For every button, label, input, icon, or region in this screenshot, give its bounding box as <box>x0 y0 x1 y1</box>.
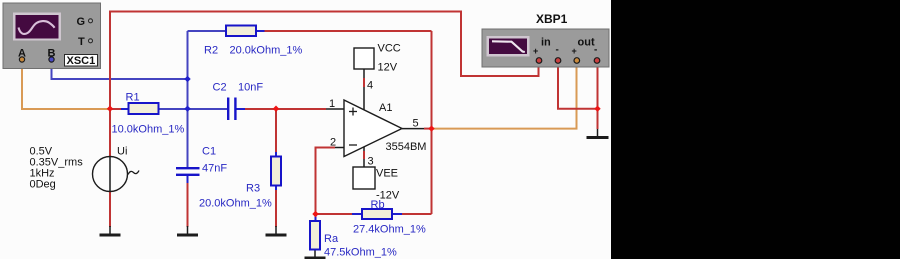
source Ui <box>93 157 140 192</box>
svg-text:2: 2 <box>330 137 336 149</box>
svg-text:Ui: Ui <box>117 146 127 158</box>
svg-text:T: T <box>78 36 85 48</box>
wire: black op-amp output lead <box>402 128 424 130</box>
wire: blue R1 right to C2 left plate <box>158 108 228 110</box>
wire: black VCC lead <box>363 69 365 110</box>
svg-text:XBP1: XBP1 <box>536 12 568 26</box>
resistor Rb <box>362 209 392 219</box>
svg-text:VEE: VEE <box>376 168 398 180</box>
ground (Ra) <box>305 257 326 259</box>
wire: black pin1 lead <box>326 108 344 110</box>
svg-text:3: 3 <box>368 156 374 168</box>
node: red junction feedback/Ra <box>312 211 318 217</box>
wire: blue R2 branch vertical <box>187 31 189 168</box>
svg-text:+: + <box>533 46 538 56</box>
wire: orange output node to XBP1 out+ <box>432 63 577 129</box>
wire: red C1 to ground <box>187 183 189 227</box>
svg-text:0Deg: 0Deg <box>30 179 56 191</box>
wire: red XBP1 out- down to ground <box>597 63 599 129</box>
svg-text:-: - <box>556 45 559 56</box>
wire: red VCC wire segment <box>363 78 365 87</box>
wire: red source bottom to ground <box>109 191 111 227</box>
svg-text:10nF: 10nF <box>238 82 263 94</box>
resistor R1 <box>129 103 159 114</box>
wire: red Rb to output vertical <box>402 213 432 215</box>
svg-text:47.5kOhm_1%: 47.5kOhm_1% <box>324 247 397 259</box>
resistor R2 <box>226 26 256 37</box>
VEE supply box <box>353 167 375 189</box>
ground (Ui) <box>100 234 121 237</box>
wire: red pin2 to feedback node <box>316 148 336 215</box>
resistor R3 <box>271 157 281 186</box>
svg-text:Ra: Ra <box>324 233 339 245</box>
ground (XBP1) <box>587 136 609 139</box>
wire: blue R1 left lead <box>121 108 129 110</box>
wire: blue C2 right lead <box>237 108 246 110</box>
svg-text:4: 4 <box>367 80 373 92</box>
svg-text:A: A <box>18 48 26 60</box>
svg-text:3554BM: 3554BM <box>386 141 427 153</box>
ground (C1) <box>177 234 198 237</box>
wire: black ground stub C1 <box>187 226 189 234</box>
wire: red VEE wire segment <box>363 151 365 159</box>
svg-text:in: in <box>541 37 551 49</box>
svg-text:out: out <box>578 37 595 49</box>
svg-text:1: 1 <box>329 98 335 110</box>
wire: blue R2 right lead <box>256 30 265 32</box>
wire: red feedback node to Rb <box>316 213 353 215</box>
svg-text:C1: C1 <box>202 146 216 158</box>
wire: blue R2 horizontal left lead <box>188 30 227 32</box>
wire: orange from scope A down and right to input node <box>22 62 110 109</box>
op-amp A1 <box>344 100 402 157</box>
svg-text:-12V: -12V <box>376 190 400 202</box>
wire: black Ra bottom to ground <box>314 250 316 258</box>
VCC supply box <box>354 48 374 69</box>
ground (R3) <box>266 234 287 237</box>
wire: blue C1 bottom lead <box>187 176 189 183</box>
resistor Ra <box>310 221 320 250</box>
wire: blue R3 top lead <box>275 152 277 157</box>
node: blue junction B-wire/R2 <box>184 76 190 82</box>
node: red junction XBP out- <box>594 106 600 112</box>
black screenshot border region <box>611 0 900 259</box>
oscilloscope XSC1 <box>3 3 101 69</box>
svg-text:47nF: 47nF <box>202 163 227 175</box>
wire: black XBP ground stub <box>597 129 599 136</box>
svg-text:12V: 12V <box>378 62 398 74</box>
svg-text:+: + <box>572 46 577 56</box>
svg-text:C2: C2 <box>213 82 227 94</box>
svg-text:10.0kOhm_1%: 10.0kOhm_1% <box>112 124 185 136</box>
svg-text:-: - <box>594 45 597 56</box>
wire: blue Rb left lead <box>352 213 362 215</box>
wire: black ground stub Ui <box>109 226 111 234</box>
capacitor C2 <box>227 98 237 121</box>
svg-text:VCC: VCC <box>378 43 401 55</box>
svg-text:A1: A1 <box>379 102 392 114</box>
wire: red output feedback vertical <box>431 31 433 214</box>
wire: red R3 branch down <box>275 109 277 152</box>
svg-text:27.4kOhm_1%: 27.4kOhm_1% <box>353 224 426 236</box>
wire: red input node down to source Ui <box>109 109 111 157</box>
wire: red R2 to output vertical <box>265 30 432 32</box>
wire: red output stub to node <box>424 128 432 130</box>
capacitor C1 <box>176 167 200 176</box>
wire: red C2 to op-amp pin1 <box>245 108 326 110</box>
node: red junction C2/R3 <box>273 106 279 112</box>
svg-text:20.0kOhm_1%: 20.0kOhm_1% <box>199 198 272 210</box>
node: red junction output <box>428 125 434 131</box>
wire: red R3 to ground <box>275 190 277 227</box>
wire: red input node to R1 <box>110 108 121 110</box>
wire: black pin2 lead <box>335 147 344 149</box>
wire: black VEE lead <box>363 146 365 167</box>
svg-text:XSC1: XSC1 <box>67 55 96 67</box>
bode plotter XBP1 <box>482 29 609 67</box>
svg-text:B: B <box>48 48 56 60</box>
wire: blue R3 bottom lead <box>275 186 277 191</box>
svg-text:R2: R2 <box>204 45 218 57</box>
wire: red XBP1 in- down right to out- node <box>558 63 598 109</box>
wire: blue Rb right lead <box>392 213 402 215</box>
svg-text:5: 5 <box>413 118 419 130</box>
svg-text:20.0kOhm_1%: 20.0kOhm_1% <box>230 45 303 57</box>
svg-text:R1: R1 <box>126 92 140 104</box>
svg-text:R3: R3 <box>246 183 260 195</box>
wire: red top loop input node to XBP1 in+ <box>110 12 539 109</box>
svg-text:G: G <box>77 16 86 28</box>
wire: blue Ra top lead <box>315 214 317 221</box>
node: blue junction main-wire <box>184 106 190 112</box>
node: red junction input <box>107 106 113 112</box>
wire: blue from scope B down and right to node R2-left <box>52 62 188 79</box>
wire: black ground stub R3 <box>275 226 277 234</box>
